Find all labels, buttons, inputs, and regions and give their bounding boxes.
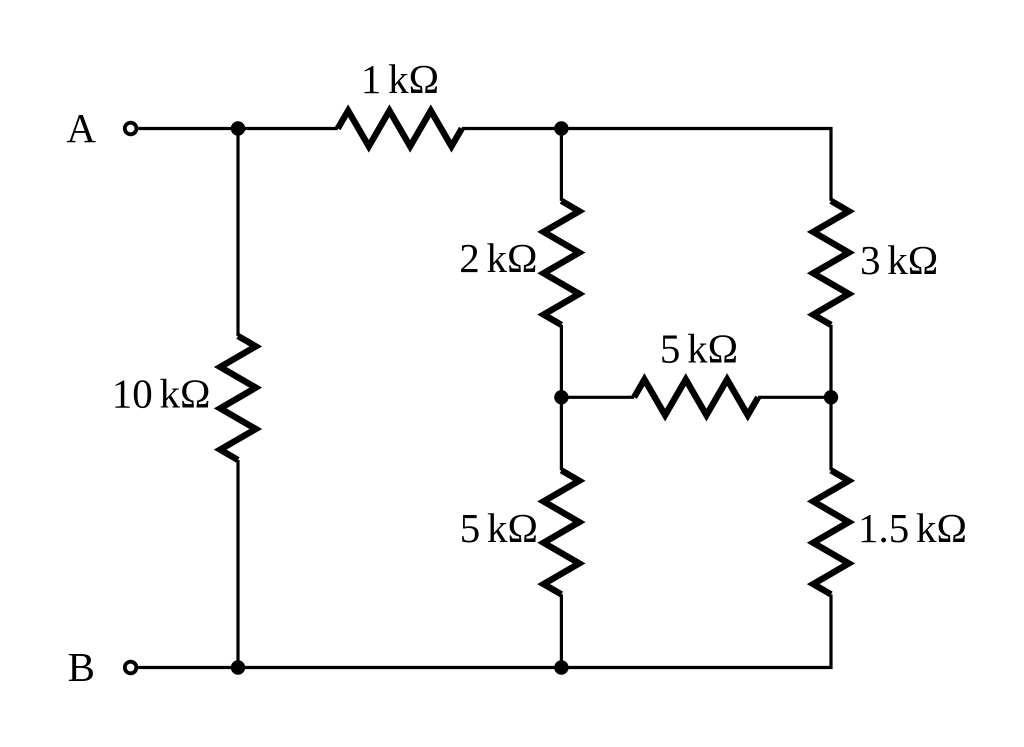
wire left column below R 10k bbox=[236, 460, 239, 668]
wire middle column between R 2k and node bbox=[560, 325, 563, 471]
svg-text:1.5 kΩ: 1.5 kΩ bbox=[858, 505, 967, 551]
wire middle column above R 2k bbox=[560, 129, 563, 201]
wire bottom rail with corner up to R 1.5k bbox=[238, 594, 831, 667]
wire top rail right of R1 with corner down to R 3k bbox=[462, 129, 831, 201]
svg-text:5 kΩ: 5 kΩ bbox=[660, 326, 738, 372]
wire middle node to R 5k horizontal bbox=[561, 396, 634, 399]
wire left column above R 10k bbox=[236, 129, 239, 337]
node junction bottom-middle bbox=[554, 660, 568, 674]
node junction middle-right bbox=[824, 390, 838, 404]
wire A terminal to node at top-left bbox=[138, 127, 338, 130]
resistor R1 1k horizontal top bbox=[338, 111, 462, 147]
terminal A open circle bbox=[125, 123, 137, 135]
svg-text:2 kΩ: 2 kΩ bbox=[459, 235, 537, 281]
wire middle column below R 5k vertical bbox=[560, 594, 563, 667]
resistor R4 3k right upper bbox=[813, 201, 849, 325]
resistor R7 1.5k right lower bbox=[813, 470, 849, 594]
node junction top-left bbox=[231, 121, 245, 135]
svg-text:10 kΩ: 10 kΩ bbox=[112, 371, 211, 417]
resistor R6 5k middle lower bbox=[544, 470, 580, 594]
svg-text:A: A bbox=[66, 105, 96, 151]
node junction bottom-left bbox=[231, 660, 245, 674]
resistor R5 5k horizontal middle bbox=[634, 380, 758, 416]
svg-text:3 kΩ: 3 kΩ bbox=[860, 237, 938, 283]
node junction top-middle bbox=[554, 121, 568, 135]
svg-text:1 kΩ: 1 kΩ bbox=[361, 56, 439, 102]
wire right column between R 3k and R 1.5k bbox=[829, 325, 832, 471]
wire B terminal to bottom-left node bbox=[138, 666, 238, 669]
terminal B open circle bbox=[125, 662, 137, 674]
wire R 5k horizontal to right node bbox=[758, 396, 831, 399]
svg-text:5 kΩ: 5 kΩ bbox=[460, 505, 538, 551]
resistor R2 10k left column bbox=[220, 336, 256, 460]
svg-text:B: B bbox=[68, 644, 95, 690]
node junction middle bbox=[554, 390, 568, 404]
resistor R3 2k middle upper bbox=[544, 201, 580, 325]
